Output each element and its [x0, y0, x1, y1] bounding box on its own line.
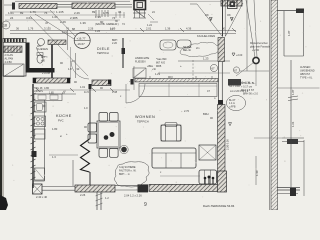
svg-text:1.2: 1.2 — [105, 196, 109, 200]
svg-text:1.61: 1.61 — [291, 121, 295, 127]
svg-text:TEPPICH: TEPPICH — [97, 51, 109, 55]
svg-text:2.385: 2.385 — [70, 16, 78, 20]
svg-text:1.80: 1.80 — [52, 127, 58, 131]
svg-text:76: 76 — [44, 11, 48, 15]
svg-text:76: 76 — [66, 27, 69, 31]
svg-text:-16.67: -16.67 — [77, 42, 86, 46]
svg-text:1.01: 1.01 — [80, 85, 86, 89]
svg-text:1.87: 1.87 — [291, 89, 295, 95]
svg-text:1.26: 1.26 — [95, 29, 101, 33]
svg-text:1.40: 1.40 — [255, 170, 259, 176]
svg-text:36: 36 — [16, 27, 19, 31]
svg-text:89: 89 — [20, 11, 24, 15]
svg-text:+ 2.00: + 2.00 — [252, 49, 260, 52]
svg-text:2.04 1.2 x 2.26: 2.04 1.2 x 2.26 — [124, 194, 142, 198]
svg-text:x40: x40 — [41, 60, 46, 63]
svg-text:24: 24 — [10, 16, 14, 20]
svg-text:u.FFB: u.FFB — [229, 105, 236, 108]
svg-text:3.64: 3.64 — [26, 16, 32, 20]
svg-text:BEL-St: BEL-St — [183, 49, 191, 52]
svg-text:9: 9 — [144, 202, 147, 208]
svg-text:2.26: 2.26 — [74, 11, 80, 15]
svg-text:2.26 0.50: 2.26 0.50 — [226, 139, 230, 150]
svg-text:89: 89 — [92, 10, 96, 14]
svg-text:MFB: MFB — [156, 65, 162, 68]
svg-text:1.85: 1.85 — [49, 92, 54, 95]
svg-text:ANRICHTE: ANRICHTE — [135, 56, 149, 60]
svg-text:BRH 90 x 2.0: BRH 90 x 2.0 — [243, 93, 258, 96]
svg-text:1.23: 1.23 — [203, 57, 209, 61]
svg-text:BRH: BRH — [203, 112, 209, 116]
svg-text:1.87: 1.87 — [287, 30, 291, 36]
svg-text:SST. 0.40: SST. 0.40 — [229, 85, 240, 88]
svg-text:1.99: 1.99 — [110, 27, 116, 31]
svg-text:2.01: 2.01 — [146, 27, 152, 31]
svg-text:Dach-TERRASSE 54.84: Dach-TERRASSE 54.84 — [203, 204, 235, 208]
svg-text:FLIESEN: FLIESEN — [37, 47, 48, 51]
svg-text:1.23: 1.23 — [155, 72, 161, 76]
svg-text:2.26: 2.26 — [88, 27, 94, 31]
svg-text:+2.00: +2.00 — [236, 54, 243, 57]
svg-text:WOHNEN: WOHNEN — [135, 115, 155, 119]
svg-text:DIELE: DIELE — [97, 47, 110, 51]
svg-text:2.26: 2.26 — [80, 193, 86, 197]
svg-text:OK: OK — [205, 13, 209, 17]
svg-text:1.36: 1.36 — [80, 21, 86, 25]
svg-text:1.0: 1.0 — [84, 106, 88, 110]
svg-text:1.8: 1.8 — [68, 67, 72, 71]
svg-text:1.3: 1.3 — [52, 155, 56, 159]
svg-text:(NACHB. GIEBELW.): (NACHB. GIEBELW.) — [95, 23, 119, 26]
svg-text:2.70: 2.70 — [184, 109, 190, 113]
svg-text:x90 KPL: x90 KPL — [34, 90, 44, 93]
svg-text:3.135: 3.135 — [44, 27, 51, 31]
svg-text:1.01: 1.01 — [8, 11, 14, 15]
svg-text:2.26: 2.26 — [112, 42, 117, 45]
svg-text:4.2 BK: 4.2 BK — [5, 61, 13, 64]
svg-text:BRH ... m: BRH ... m — [119, 173, 130, 176]
svg-text:FLIESEN: FLIESEN — [135, 60, 146, 63]
svg-text:KÜCHE: KÜCHE — [56, 114, 72, 118]
svg-text:90: 90 — [222, 27, 225, 31]
svg-text:4.36: 4.36 — [186, 27, 192, 31]
svg-text:PVC: PVC — [58, 119, 64, 123]
svg-text:2m: 2m — [196, 47, 199, 50]
svg-text:+St: +St — [152, 68, 156, 71]
svg-text:TYPE + KL: TYPE + KL — [300, 77, 313, 80]
svg-text:67: 67 — [212, 67, 216, 71]
svg-text:1.36: 1.36 — [165, 27, 171, 31]
svg-text:4.80: 4.80 — [44, 86, 50, 90]
svg-text:TEPPICH: TEPPICH — [137, 120, 149, 124]
svg-text:1.135: 1.135 — [56, 10, 64, 14]
svg-text:+16.77: +16.77 — [77, 36, 86, 40]
svg-text:2.40 x 40: 2.40 x 40 — [36, 195, 48, 199]
svg-text:+: + — [180, 64, 182, 68]
svg-text:OK: OK — [227, 13, 231, 17]
svg-text:2.01 88: 2.01 88 — [42, 72, 51, 75]
svg-text:11.5: 11.5 — [84, 90, 89, 94]
svg-text:KACHELOFEN: KACHELOFEN — [197, 34, 215, 38]
svg-text:1.76: 1.76 — [28, 27, 34, 31]
svg-text:18: 18 — [3, 24, 7, 28]
